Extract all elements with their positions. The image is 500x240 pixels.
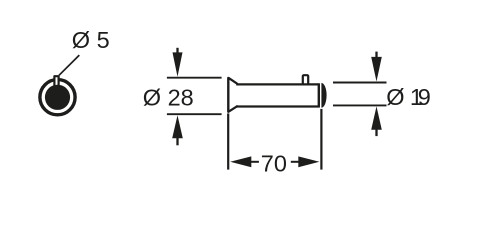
- pin head taper bottom: [229, 106, 237, 111]
- 70 extension line left: [227, 113, 229, 169]
- svg-text:70: 70: [261, 150, 287, 176]
- domed tip (filled): [321, 83, 326, 108]
- pin head face (left vertical line): [227, 78, 229, 112]
- Ø19 extension line bottom: [333, 104, 387, 106]
- pin shaft end face: [318, 83, 320, 107]
- locking nub on shaft: [303, 75, 308, 84]
- front view: Ø5 locking pin notch: [54, 76, 58, 86]
- front view: pin end face (filled): [45, 85, 70, 110]
- Ø19 extension line top: [333, 82, 387, 84]
- pin shaft top line: [236, 83, 319, 85]
- svg-text:Ø 5: Ø 5: [72, 27, 110, 53]
- 70 extension line right: [320, 109, 322, 170]
- 70 arrow left (pointing left): [230, 156, 259, 167]
- Ø28 arrow top (pointing down): [173, 48, 183, 77]
- pin shaft bottom line: [236, 105, 319, 107]
- Ø28 arrow bottom (pointing up): [172, 115, 183, 145]
- Ø19 arrow bottom (pointing up): [371, 106, 382, 136]
- leader line from notch to Ø5 label: [59, 55, 79, 75]
- front view: outer ring (Ø28 head seen from end): [40, 80, 75, 115]
- Ø19 arrow top (pointing down): [371, 52, 382, 82]
- Ø28 extension line top: [167, 77, 222, 79]
- Ø28 extension line bottom: [167, 113, 222, 115]
- 70 arrow right (pointing right): [291, 156, 320, 167]
- pin head taper top: [229, 78, 237, 84]
- svg-text:Ø 28: Ø 28: [143, 84, 194, 110]
